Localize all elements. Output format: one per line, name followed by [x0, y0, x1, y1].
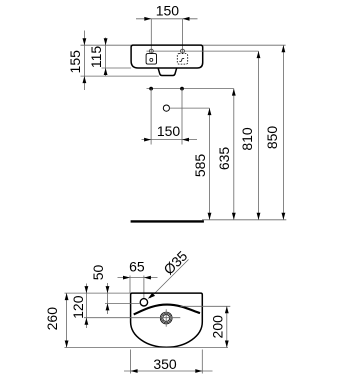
svg-text:155: 155 [67, 50, 83, 74]
extension line basin bottom to left (dim 115) [102, 67, 132, 69]
svg-text:120: 120 [70, 295, 86, 319]
dimension 65 left arrow [123, 276, 130, 280]
svg-text:350: 350 [153, 356, 177, 372]
dimension 115 bottom arrow [104, 68, 108, 75]
dimension 585 bottom arrow [208, 213, 212, 220]
dimension 200 top arrow [225, 306, 229, 313]
dimension 635 line [233, 89, 235, 220]
left fixing symbol: cross-circle [149, 49, 153, 53]
dimension 50 bottom arrow [106, 303, 110, 310]
extension line basin top to left dims [81, 44, 132, 46]
dimension 65 right arrow [144, 276, 151, 280]
dimension 150 (top) line [136, 18, 198, 20]
dimension 585 line [209, 108, 211, 220]
dimension 155 line [83, 31, 85, 91]
dimension 150 (middle) right arrow [182, 138, 189, 142]
drain outer circle [160, 312, 172, 324]
dimension 120 bottom arrow [85, 318, 89, 325]
svg-text:65: 65 [129, 259, 145, 275]
dimension 200 line [226, 306, 228, 347]
dimension 350 right arrow [195, 369, 202, 373]
dimension 350 left arrow [131, 369, 138, 373]
waste outlet circle [163, 105, 169, 111]
right fixing symbol: cross-circle [181, 49, 185, 53]
dimension 810 line [258, 51, 260, 220]
dimension 50 line [107, 283, 109, 314]
right fixing symbol: inner s-mark [179, 58, 184, 61]
extension line drain center to left (dim 120) [84, 317, 180, 319]
dimension 350 line [124, 370, 213, 372]
dimension 155 top arrow [83, 38, 87, 45]
left fixing symbol: inner hole [150, 58, 153, 61]
dimension 155 bottom arrow [83, 76, 87, 83]
svg-text:150: 150 [157, 123, 181, 139]
drain stub below basin [158, 68, 176, 75]
left fixing symbol: solid square [146, 54, 156, 65]
extension line from left tap hole up to dim 150 [150, 19, 152, 54]
extension line wave top to right (dim 200) [181, 305, 231, 307]
dimension 150 (top) right arrow [183, 17, 190, 21]
extension line from right tap hole up to dim 150 [182, 19, 184, 54]
dimension 260 line [66, 293, 68, 347]
dimension 150 (top) left arrow [144, 17, 151, 21]
extension line basin bottom [65, 347, 229, 349]
svg-text:810: 810 [239, 127, 255, 151]
drain vertical centerline [165, 309, 167, 326]
svg-text:150: 150 [156, 3, 180, 19]
extension line tap hole up to dim 65 [143, 276, 145, 299]
inner bowl wave line [134, 305, 200, 315]
mounting hole line (extension for dim 810) [147, 50, 259, 52]
dimension 115 line [105, 38, 107, 77]
dimension 585 top arrow [208, 108, 212, 115]
dimension 850 line [282, 45, 284, 220]
svg-text:200: 200 [210, 315, 226, 339]
extension line basin top to right (dim 850) [203, 44, 286, 46]
right vertical line below dot [181, 89, 183, 145]
dimension 120 line [85, 284, 87, 329]
dimension 810 bottom arrow [257, 213, 261, 220]
basin front outline [131, 45, 203, 68]
extension line basin left to dim 350 [130, 350, 132, 374]
dimension 150 (middle) left arrow [144, 138, 151, 142]
leader line to tap hole [150, 260, 189, 299]
left supply dot [149, 87, 153, 91]
extension line tap hole center to left (dim 50) [105, 302, 140, 304]
right supply dot [180, 87, 184, 91]
dimension 635 top arrow [232, 89, 236, 96]
right fixing symbol: dashed square [177, 54, 187, 65]
floor thick line [131, 220, 204, 222]
dimension 635 bottom arrow [232, 213, 236, 220]
svg-text:260: 260 [44, 307, 60, 331]
extension line basin right to dim 350 [201, 350, 203, 374]
svg-text:635: 635 [216, 147, 232, 171]
left vertical line below dot [150, 89, 152, 145]
drain inner circle [163, 315, 170, 322]
drain middle circle [161, 313, 171, 323]
svg-text:115: 115 [88, 46, 104, 69]
leader arrowhead [148, 293, 155, 299]
dimension 260 bottom arrow [65, 341, 69, 348]
waste outlet line (extension for dim 585) [170, 107, 210, 109]
dimension 115 top arrow [104, 38, 108, 45]
tap hole circle [140, 299, 147, 306]
supply connection line (extension for dim 635) [147, 88, 234, 90]
dimension 50 top arrow [106, 286, 110, 293]
extension line basin left edge up to dim 65 [129, 276, 131, 294]
dimension 810 top arrow [257, 51, 261, 58]
svg-text:50: 50 [90, 265, 106, 281]
svg-text:585: 585 [192, 154, 208, 178]
basin plan outline [131, 293, 203, 347]
extension line stub bottom to left (dim 155) [81, 75, 159, 77]
dimension 65 line [118, 277, 158, 279]
dimension 200 bottom arrow [225, 341, 229, 348]
svg-text:850: 850 [264, 126, 280, 150]
dimension 150 (middle) line [142, 139, 198, 141]
dimension 260 top arrow [65, 293, 69, 300]
dimension 850 top arrow [282, 45, 286, 52]
dimension 120 top arrow [85, 286, 89, 293]
extension line basin top edge to left dims [65, 292, 131, 294]
floor extension line [202, 219, 286, 221]
dimension 850 bottom arrow [282, 213, 286, 220]
